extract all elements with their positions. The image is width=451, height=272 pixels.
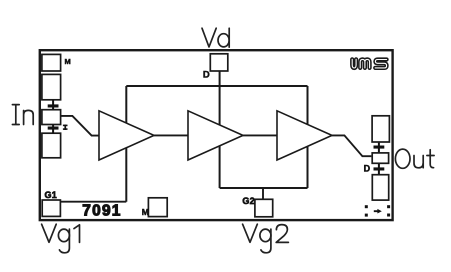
wire: G2 stem [262,188,264,199]
op-amp A2 [188,111,243,160]
pad R3 [372,175,388,200]
svg-text:D: D [203,69,210,80]
label In [12,105,33,125]
wire: amp3 out to Out pad [331,135,371,156]
label Vg2 [243,224,289,253]
pad Vd [210,54,228,71]
label Vg1 [42,224,80,253]
orientation mark dots [365,205,390,216]
svg-text:M: M [142,207,149,217]
wire: In pad to amp1 [61,116,99,136]
label Out [395,149,434,168]
wire: G1 pad to box [61,201,127,203]
label I cap C2 [63,125,68,130]
pad G1 [42,200,60,216]
wire: bias box bottom [220,187,308,189]
pad L4 [42,133,61,158]
capacitor C2 [48,125,59,134]
wire: amp1 out to amp2 [153,134,189,136]
label Vd [202,28,229,47]
wire: Vd stem down [219,71,221,188]
op-amp A3 [277,111,332,160]
pad R2 Out [372,153,388,163]
svg-text:G2: G2 [242,196,254,206]
wire: bias box left vertical [125,86,127,202]
wire: bias box right vertical [307,86,309,188]
svg-text:D: D [364,164,371,174]
pad L1 [42,54,61,71]
pad G2 [255,199,273,217]
wire: bias box top [126,85,307,87]
wire: amp2 out to amp3 [242,134,278,136]
pad R1 [372,116,389,142]
chip outline [40,50,393,220]
svg-text:M: M [65,57,71,66]
pad L3 In [42,110,61,125]
orientation arrow [374,209,382,214]
svg-text:G1: G1 [45,190,57,200]
pad M bottom [148,198,167,217]
svg-text:7091: 7091 [82,202,121,219]
pad L2 [42,74,61,99]
capacitor C3 [374,143,385,153]
capacitor C1 [48,100,59,110]
op-amp A1 [99,111,154,160]
logo UMS [352,59,386,68]
capacitor C4 [374,164,385,174]
